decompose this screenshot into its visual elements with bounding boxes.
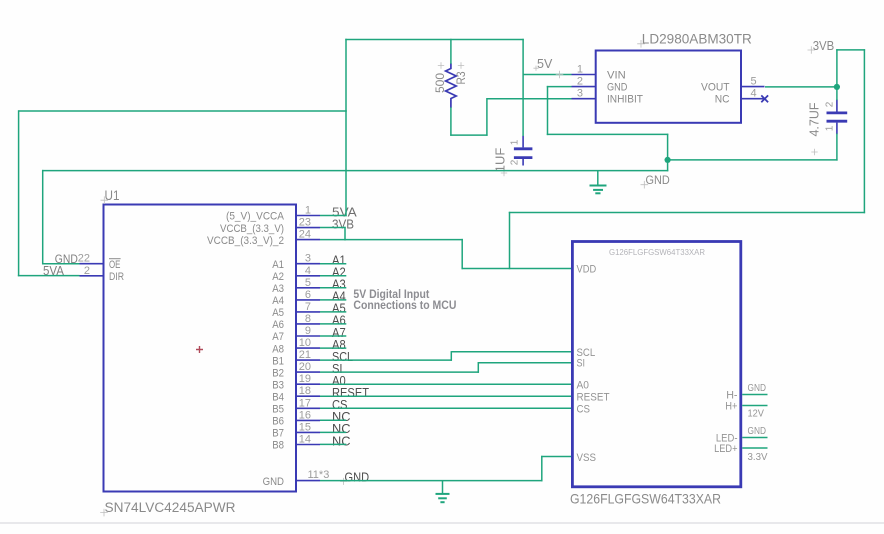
wire SI into display — [478, 362, 571, 364]
svg-text:14: 14 — [299, 434, 311, 446]
svg-text:2: 2 — [825, 101, 836, 107]
svg-text:A5: A5 — [272, 307, 284, 319]
svg-text:A8: A8 — [272, 343, 284, 355]
module LCD G126FLGFGSW64T33XAR body — [572, 242, 740, 487]
wire 5VA left vertical — [18, 110, 20, 276]
U1 reference designator — [101, 196, 109, 204]
wire SCL riser — [450, 351, 452, 361]
junction VOUT/4.7UF/3VB — [834, 84, 840, 90]
svg-text:3: 3 — [577, 88, 583, 100]
wire A7 stub — [320, 335, 346, 337]
wire GND riser right — [667, 134, 669, 172]
svg-text:LED+: LED+ — [714, 443, 737, 455]
wire display right 12V stub — [742, 405, 767, 407]
wire VSS into display — [541, 456, 571, 458]
svg-text:A0: A0 — [577, 379, 590, 391]
svg-text:11*3: 11*3 — [308, 469, 330, 481]
U1 pin 9 (A7) — [296, 335, 320, 337]
wire 5VA horizontal upper — [19, 110, 347, 112]
capacitor 1UF pin 1 lead — [522, 136, 524, 148]
wire display right GND stub — [742, 394, 767, 396]
U1 pin 15 (B7) — [296, 431, 320, 433]
svg-text:INHIBIT: INHIBIT — [607, 94, 643, 106]
svg-text:2: 2 — [84, 265, 90, 277]
LD2980 pin 3 (INHIBIT) — [572, 98, 596, 100]
regulator U? LD2980ABM30TR body — [596, 51, 741, 123]
capacitor 4.7UF pin 2 lead — [836, 100, 838, 112]
svg-text:OE: OE — [109, 259, 120, 271]
wire A4 stub — [320, 299, 346, 301]
svg-text:2: 2 — [510, 159, 521, 165]
svg-text:SN74LVC4245APWR: SN74LVC4245APWR — [105, 500, 236, 516]
svg-text:3VB: 3VB — [332, 216, 354, 231]
svg-text:NC: NC — [715, 94, 730, 106]
capacitor 1UF pin 2 lead — [522, 159, 524, 166]
wire 5V to VIN — [523, 74, 571, 76]
svg-text:5V: 5V — [537, 57, 553, 71]
wire INHIBIT horizontal — [487, 98, 572, 100]
svg-text:Connections to MCU: Connections to MCU — [353, 300, 456, 312]
svg-text:12V: 12V — [748, 408, 765, 420]
wire SI from pin20 — [320, 371, 479, 373]
sheet frame bottom line — [0, 522, 884, 524]
wire 3VB riser mid — [509, 212, 511, 269]
svg-text:5: 5 — [305, 277, 311, 289]
U1 pin 16 (B6) — [296, 419, 320, 421]
U1 pin 18 (B4) — [296, 395, 320, 397]
capacitor 1UF bottom plate — [514, 156, 533, 159]
ground symbol near U1 — [442, 481, 444, 494]
svg-text:U1: U1 — [105, 188, 120, 203]
wire 3VB pin24 link — [320, 239, 346, 241]
svg-text:A1: A1 — [272, 259, 284, 271]
U1 pin 2 (DIR) — [80, 275, 104, 277]
wire GND long horizontal — [42, 170, 668, 172]
wire 5VA riser — [345, 39, 347, 216]
1UF value label — [501, 170, 507, 176]
U1 pin 23 (VCCB_(3.3_V)) — [296, 227, 320, 229]
U1 origin mark — [196, 346, 203, 353]
svg-text:1: 1 — [825, 125, 836, 131]
resistor R3 500 body — [446, 63, 457, 107]
wire VSS riser — [541, 456, 543, 482]
LD2980ABM30TR name label — [637, 40, 645, 48]
R3 value 500 — [438, 62, 444, 68]
wire 3VB label stub — [836, 49, 865, 51]
R3 name — [458, 62, 464, 68]
wire GND U1 pin11 horizontal — [320, 480, 543, 482]
U1 pin 11*3 (GND) — [296, 480, 320, 482]
wire NC stub pin14 — [320, 443, 346, 445]
U1 pin 3 (A1) — [296, 263, 320, 265]
svg-text:B4: B4 — [272, 391, 284, 403]
svg-text:15: 15 — [299, 421, 311, 433]
wire A2 stub — [320, 275, 346, 277]
U1 pin 10 (A8) — [296, 347, 320, 349]
wire CS — [320, 407, 571, 409]
U1 pin 1 ((5_V)_VCCA) — [296, 215, 320, 217]
svg-text:NC: NC — [332, 433, 351, 448]
net label GND at U1 pin 11 — [340, 478, 347, 485]
svg-text:RESET: RESET — [577, 391, 610, 403]
4.7UF value label — [811, 149, 817, 155]
LD2980 pin 4 (NC) — [741, 98, 765, 100]
svg-text:22: 22 — [78, 253, 90, 265]
wire display right 3.3V stub — [742, 447, 767, 449]
wire 3VB drop to VDD — [461, 239, 463, 269]
wire INHIBIT bottom horizontal — [450, 134, 487, 136]
svg-text:B6: B6 — [272, 416, 284, 428]
svg-text:3VB: 3VB — [813, 39, 835, 53]
U1 pin 5 (A3) — [296, 287, 320, 289]
svg-text:A3: A3 — [272, 283, 284, 295]
svg-text:18: 18 — [299, 385, 311, 397]
wire 5V vertical to 1UF — [522, 39, 524, 136]
wire A1 stub — [320, 263, 346, 265]
svg-text:B3: B3 — [272, 379, 284, 391]
wire GND into LD2980 pin2 — [547, 86, 572, 88]
wire INHIBIT riser — [486, 98, 488, 136]
wire R3 bottom green lead — [450, 107, 452, 136]
wire NC stub pin15 — [320, 431, 346, 433]
ground symbol near LD2980 — [597, 171, 599, 186]
U1 pin 19 (B3) — [296, 383, 320, 385]
svg-text:VCCB_(3.3_V): VCCB_(3.3_V) — [220, 223, 284, 235]
wire 3VB horizontal run — [344, 239, 463, 241]
svg-text:GND: GND — [646, 173, 670, 187]
svg-text:19: 19 — [299, 373, 311, 385]
svg-text:4: 4 — [751, 87, 757, 99]
svg-text:VSS: VSS — [577, 452, 597, 464]
svg-text:3.3V: 3.3V — [748, 451, 768, 463]
wire GND to OE pin — [42, 263, 80, 265]
wire SCL into display — [451, 351, 571, 353]
wire 3VB long top horizontal — [509, 212, 865, 214]
svg-text:VDD: VDD — [577, 264, 597, 276]
wire 3VB right vertical — [863, 49, 865, 213]
svg-text:500: 500 — [433, 73, 447, 93]
svg-text:GND: GND — [748, 382, 767, 394]
capacitor 4.7UF top plate — [827, 112, 848, 115]
svg-text:2: 2 — [577, 75, 583, 87]
wire GND left vertical — [42, 170, 44, 265]
svg-text:1: 1 — [305, 205, 311, 217]
U1 pin 24 (VCCB_(3.3_V)_2) — [296, 239, 320, 241]
U1 pin 17 (B5) — [296, 407, 320, 409]
svg-text:GND: GND — [345, 470, 370, 484]
op IC U1 SN74LVC4245APWR body — [104, 205, 297, 492]
wire R3 top green lead — [450, 39, 452, 64]
svg-text:1: 1 — [510, 139, 521, 145]
svg-text:GND: GND — [263, 476, 284, 488]
svg-text:6: 6 — [305, 289, 311, 301]
capacitor 4.7UF bottom plate — [827, 120, 848, 123]
net label 3VB — [808, 46, 816, 54]
svg-text:A2: A2 — [272, 271, 284, 283]
svg-text:G126FLGFGSW64T33XAR: G126FLGFGSW64T33XAR — [609, 247, 705, 257]
svg-text:3: 3 — [305, 253, 311, 265]
wire 3VB down to VOUT junction — [836, 49, 838, 87]
wire RESET — [320, 395, 571, 397]
U1 value SN74LVC4245APWR — [100, 509, 108, 517]
svg-text:LD2980ABM30TR: LD2980ABM30TR — [642, 31, 752, 47]
wire A3 stub — [320, 287, 346, 289]
svg-text:9: 9 — [305, 325, 311, 337]
wire VOUT to junction — [765, 86, 838, 88]
svg-text:1: 1 — [577, 63, 583, 75]
svg-text:CS: CS — [577, 404, 591, 416]
net label GND (regulator) — [641, 181, 649, 189]
wire display right GND stub — [742, 437, 767, 439]
wire A0 — [320, 383, 571, 385]
capacitor 1UF top plate — [514, 147, 533, 150]
wire NC stub pin16 — [320, 419, 346, 421]
svg-text:B7: B7 — [272, 428, 284, 440]
wire A8 stub — [320, 347, 346, 349]
svg-text:DIR: DIR — [109, 271, 124, 283]
wire 5V top horizontal — [345, 39, 524, 41]
wire SI riser — [477, 362, 479, 373]
svg-text:A4: A4 — [272, 295, 284, 307]
wire 4.7UF bottom green lead — [836, 134, 838, 161]
wire GND riser to pin2 — [547, 86, 549, 135]
svg-text:B2: B2 — [272, 367, 284, 379]
svg-text:17: 17 — [299, 397, 311, 409]
svg-text:24: 24 — [299, 229, 311, 241]
wire 3VB pin23 link — [320, 227, 346, 229]
capacitor 4.7UF pin 1 lead — [836, 123, 838, 135]
svg-text:VIN: VIN — [607, 70, 626, 82]
svg-text:16: 16 — [299, 409, 311, 421]
wire 5VA pin1 link — [320, 215, 347, 217]
wire A5 stub — [320, 311, 346, 313]
wire 5VA to DIR pin — [18, 275, 80, 277]
wire A6 stub — [320, 323, 346, 325]
svg-text:4.7UF: 4.7UF — [808, 102, 822, 136]
wire 3VB pins 23-24 tie — [344, 227, 346, 241]
wire GND junction to 4.7UF — [668, 159, 838, 161]
svg-text:4: 4 — [305, 265, 311, 277]
NC no-connect X mark — [761, 95, 768, 102]
svg-text:23: 23 — [299, 217, 311, 229]
wire 4.7UF top green lead — [836, 86, 838, 100]
svg-text:5: 5 — [751, 75, 757, 87]
LD2980 pin 1 (VIN) — [572, 74, 596, 76]
U1 pin 6 (A4) — [296, 299, 320, 301]
svg-text:B5: B5 — [272, 404, 284, 416]
U1 pin 8 (A6) — [296, 323, 320, 325]
svg-text:R3: R3 — [454, 71, 468, 84]
svg-text:VCCB_(3.3_V)_2: VCCB_(3.3_V)_2 — [207, 235, 284, 247]
wire SCL from pin21 — [320, 359, 452, 361]
LD2980 pin 5 (VOUT) — [741, 86, 765, 88]
svg-text:8: 8 — [305, 313, 311, 325]
U1 pin 7 (A5) — [296, 311, 320, 313]
svg-text:B8: B8 — [272, 440, 284, 452]
svg-text:10: 10 — [299, 337, 311, 349]
svg-text:G126FLGFGSW64T33XAR: G126FLGFGSW64T33XAR — [570, 492, 721, 507]
svg-text:VOUT: VOUT — [701, 82, 730, 94]
wire GND horizontal mid — [547, 133, 669, 135]
U1 pin 22 (OE) — [80, 263, 104, 265]
svg-text:B1: B1 — [272, 355, 284, 367]
U1 pin 14 (B8) — [296, 444, 320, 446]
svg-text:1UF: 1UF — [493, 148, 508, 173]
wire 3VB into VDD pin — [462, 268, 572, 270]
U1 pin 20 (B2) — [296, 371, 320, 373]
svg-text:H+: H+ — [725, 401, 737, 413]
junction GND/4.7UF — [665, 157, 671, 163]
svg-text:GND: GND — [748, 425, 767, 437]
svg-text:SI: SI — [577, 358, 586, 370]
svg-text:(5_V)_VCCA: (5_V)_VCCA — [226, 211, 285, 223]
svg-text:GND: GND — [607, 82, 627, 94]
U1 pin 4 (A2) — [296, 275, 320, 277]
U1 pin 21 (B1) — [296, 359, 320, 361]
net label 5V — [556, 71, 564, 79]
svg-text:7: 7 — [305, 301, 311, 313]
svg-text:A7: A7 — [272, 331, 284, 343]
svg-text:20: 20 — [299, 361, 311, 373]
LD2980 pin 2 (GND) — [572, 86, 596, 88]
svg-text:A6: A6 — [272, 319, 284, 331]
svg-text:21: 21 — [299, 349, 311, 361]
